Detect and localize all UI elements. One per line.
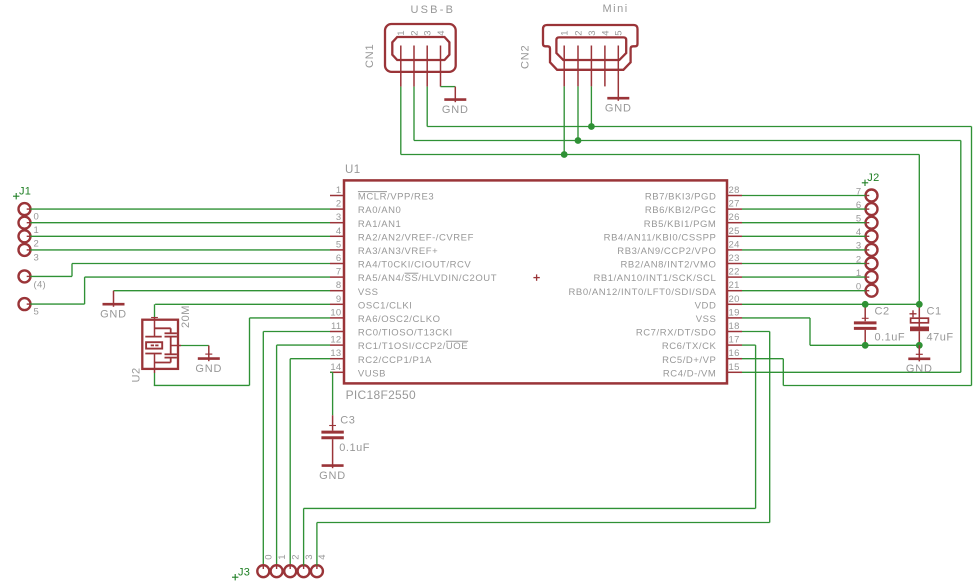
svg-text:3: 3	[587, 30, 598, 36]
wire U1 pin20 VDD to caps	[742, 303, 919, 305]
svg-text:OSC1/CLKI: OSC1/CLKI	[358, 300, 413, 311]
svg-text:22: 22	[729, 267, 740, 278]
J3 pin 0 circle	[262, 565, 264, 569]
U1 pin 6 stub	[330, 263, 344, 265]
svg-text:4: 4	[336, 226, 342, 237]
svg-text:11: 11	[331, 321, 341, 332]
svg-text:GND: GND	[906, 363, 933, 375]
svg-text:0: 0	[264, 554, 275, 560]
svg-text:RB0/AN12/INT0/LFT0/SDI/SDA: RB0/AN12/INT0/LFT0/SDI/SDA	[569, 287, 717, 298]
U1 pin 23 stub	[727, 263, 742, 265]
svg-text:RC6/TX/CK: RC6/TX/CK	[662, 341, 717, 352]
svg-text:RC7/RX/DT/SDO: RC7/RX/DT/SDO	[636, 328, 717, 339]
wire D- to U1 pin15	[742, 371, 961, 373]
U1 pin 11 stub	[330, 331, 344, 333]
svg-text:23: 23	[729, 253, 740, 264]
CN1 pin 4	[440, 46, 442, 87]
svg-text:USB-B: USB-B	[411, 4, 456, 16]
svg-text:5: 5	[614, 30, 625, 36]
J3 pin 2 circle	[289, 565, 291, 569]
svg-text:19: 19	[729, 307, 740, 318]
svg-text:VSS: VSS	[358, 287, 379, 298]
svg-text:RA1/AN1: RA1/AN1	[358, 219, 401, 230]
svg-text:MCLR/VPP/RE3: MCLR/VPP/RE3	[358, 192, 434, 203]
U1 pin 7 stub	[330, 276, 344, 278]
svg-text:CN2: CN2	[520, 45, 532, 69]
wire crystal center pin to ground	[181, 345, 209, 347]
wire VBUS: CN2 pin1 down	[563, 86, 565, 154]
U1 pin 25 stub	[727, 235, 742, 237]
svg-text:7: 7	[336, 267, 342, 278]
svg-text:Mini: Mini	[603, 3, 629, 15]
node junction CN2 pin1 / VBUS	[561, 151, 568, 158]
U1 pin 22 stub	[727, 276, 742, 278]
svg-text:C1: C1	[927, 306, 942, 318]
svg-text:8: 8	[336, 280, 342, 291]
wire U1 pin12 to J3 pin1	[277, 344, 330, 346]
U1 pin 1 stub	[330, 195, 344, 197]
CN2 inner plug outline	[556, 37, 626, 60]
svg-text:RA3/AN3/VREF+: RA3/AN3/VREF+	[358, 246, 438, 257]
CN1 pin 3	[426, 46, 428, 87]
svg-text:0.1uF: 0.1uF	[875, 332, 906, 344]
wire U1 pin17 drop	[755, 345, 757, 508]
svg-text:PIC18F2550: PIC18F2550	[346, 388, 416, 402]
svg-text:4: 4	[436, 30, 447, 36]
CN2 pin 3	[590, 46, 592, 87]
wire U1 pin 24 to J2	[742, 249, 866, 251]
U1 pin 18 stub	[727, 331, 742, 333]
J2 pin 0 circle	[865, 290, 869, 292]
svg-text:GND: GND	[195, 363, 222, 375]
svg-text:5: 5	[34, 307, 40, 318]
J1 pin 5 circle	[27, 303, 31, 305]
wire U1 pin 21 to J2	[742, 290, 866, 292]
wire J3 pin3 riser	[303, 508, 305, 565]
svg-text:9: 9	[336, 294, 342, 305]
wire J1 pin 2 to U1	[30, 235, 330, 237]
wire VBUS: CN1 pin1 down	[400, 87, 402, 155]
svg-text:3: 3	[34, 252, 40, 263]
J2 pin 6 circle	[865, 208, 869, 210]
wire CN1 pin4 to GND	[441, 86, 456, 88]
wire J3 pin4 to U1 pin18 run	[317, 522, 770, 524]
wire J3 pin3 to U1 pin17 run	[304, 507, 756, 509]
wire U1 pin13 to J3 pin2	[290, 358, 330, 360]
svg-text:1: 1	[336, 185, 342, 196]
J3 pin 3 circle	[303, 565, 305, 569]
CN2 pin 1	[563, 46, 565, 87]
svg-text:27: 27	[729, 199, 740, 210]
wire U1 pin 27 to J2	[742, 208, 866, 210]
svg-text:U1: U1	[345, 164, 361, 176]
wire D+: CN2 pin3 down	[590, 86, 592, 126]
capacitor C1 polarized	[910, 304, 930, 345]
svg-text:21: 21	[729, 280, 740, 291]
svg-text:RA6/OSC2/CLKO: RA6/OSC2/CLKO	[358, 314, 441, 325]
wire U1 pin 26 to J2	[742, 222, 866, 224]
svg-text:RC5/D+/VP: RC5/D+/VP	[662, 355, 716, 366]
U1 pin 5 stub	[330, 249, 344, 251]
svg-text:3: 3	[304, 554, 315, 560]
J2 pin 5 circle	[865, 222, 869, 224]
capacitor C3	[321, 415, 343, 461]
U1 pin 2 stub	[330, 208, 344, 210]
U1 pin 12 stub	[330, 344, 344, 346]
svg-text:C2: C2	[875, 306, 890, 318]
svg-text:12: 12	[330, 335, 341, 346]
svg-text:2: 2	[290, 554, 301, 560]
ground GND at CN1	[454, 87, 456, 103]
svg-text:RB6/KBI2/PGC: RB6/KBI2/PGC	[645, 205, 717, 216]
svg-text:VDD: VDD	[695, 300, 717, 311]
wire U1 pin 22 to J2	[742, 276, 866, 278]
U1 pin7 SS overline	[405, 272, 419, 274]
U1 origin cross	[533, 277, 539, 279]
svg-text:2: 2	[573, 30, 584, 36]
svg-text:10: 10	[330, 307, 341, 318]
J1 pin 0 circle	[27, 208, 31, 210]
wire OSC2 (U1 pin10) to crystal bottom	[250, 317, 331, 319]
svg-text:RA5/AN4/SS/HLVDIN/C2OUT: RA5/AN4/SS/HLVDIN/C2OUT	[358, 273, 497, 284]
svg-text:4: 4	[600, 30, 611, 36]
svg-text:VSS: VSS	[696, 314, 717, 325]
node junction C2 top	[862, 301, 869, 308]
U1 pin 4 stub	[330, 235, 344, 237]
U1 pin 15 stub	[727, 371, 742, 373]
wire J1 pin 1 to U1	[30, 222, 330, 224]
J1 pin (4) circle	[27, 275, 31, 277]
wire D+ down right side	[971, 127, 973, 386]
svg-text:RA2/AN2/VREF-/CVREF: RA2/AN2/VREF-/CVREF	[358, 232, 474, 243]
J1 origin cross	[13, 195, 19, 197]
svg-text:RC2/CCP1/P1A: RC2/CCP1/P1A	[358, 355, 432, 366]
svg-text:17: 17	[729, 335, 740, 346]
wire U1 pin 25 to J2	[742, 235, 866, 237]
J3 origin cross	[232, 576, 238, 578]
U1 pin 24 stub	[727, 249, 742, 251]
CN1 pin 2	[413, 46, 415, 87]
svg-text:J2: J2	[867, 172, 879, 184]
svg-text:RB7/BKI3/PGD: RB7/BKI3/PGD	[645, 192, 717, 203]
svg-text:25: 25	[729, 226, 740, 237]
connector CN1 USB-B outer body	[385, 24, 456, 72]
U1 pin 16 stub	[727, 358, 742, 360]
J2 pin 3 circle	[865, 249, 869, 251]
svg-text:15: 15	[729, 362, 740, 373]
wire D-: CN1 pin2 down	[413, 87, 415, 141]
wire J1 pin 0 to U1	[30, 208, 330, 210]
svg-text:RC1/T1OSI/CCP2/UOE: RC1/T1OSI/CCP2/UOE	[358, 341, 468, 352]
crystal U2 body	[142, 317, 181, 373]
J1 pin 3 circle	[27, 249, 31, 251]
svg-text:16: 16	[729, 348, 740, 359]
J3 pin 4 circle	[316, 565, 318, 569]
svg-text:0: 0	[34, 212, 40, 223]
svg-text:14: 14	[330, 362, 341, 373]
wire U1 pin19 VSS jog down	[742, 317, 810, 319]
U1 pin 13 stub	[330, 358, 344, 360]
ground GND at U1 pin8	[113, 291, 115, 307]
CN2 pin 4 (unconnected)	[604, 46, 606, 87]
U1 pin 26 stub	[727, 222, 742, 224]
U1 pin12 UOE overline	[446, 340, 468, 342]
wire D- down right side	[960, 141, 962, 373]
CN2 pin 5 to ground	[617, 46, 619, 101]
CN1 pin 1	[400, 46, 402, 87]
J2 pin 2 circle	[865, 263, 869, 265]
U1 pin1 MCLR overline	[358, 191, 387, 193]
svg-text:RB4/AN11/KBI0/CSSPP: RB4/AN11/KBI0/CSSPP	[604, 232, 717, 243]
svg-text:RA4/T0CKI/CIOUT/RCV: RA4/T0CKI/CIOUT/RCV	[358, 260, 471, 271]
J1 pin 1 circle	[27, 222, 31, 224]
U1 pin 17 stub	[727, 344, 742, 346]
U1 pin 27 stub	[727, 208, 742, 210]
U1 pin 8 stub	[330, 290, 344, 292]
svg-text:U2: U2	[131, 367, 143, 382]
svg-text:RB5/KBI1/PGM: RB5/KBI1/PGM	[644, 219, 717, 230]
svg-text:0.1uF: 0.1uF	[339, 442, 370, 454]
svg-text:26: 26	[729, 212, 740, 223]
U1 pin 21 stub	[727, 290, 742, 292]
wire U1 pin 23 to J2	[742, 263, 866, 265]
wire D+ riser at pin16	[782, 359, 784, 386]
wire VBUS horizontal bus	[401, 154, 920, 156]
wire VBUS down right side to VDD rail	[918, 155, 920, 305]
J2 origin cross	[862, 182, 868, 184]
U1 pin 20 stub	[727, 303, 742, 305]
node junction C2 bottom	[862, 342, 869, 349]
svg-text:13: 13	[330, 348, 341, 359]
svg-text:(4): (4)	[34, 279, 47, 290]
svg-text:1: 1	[34, 225, 40, 236]
svg-text:J1: J1	[19, 186, 31, 198]
U1 pin 28 stub	[727, 195, 742, 197]
svg-text:C3: C3	[340, 415, 355, 427]
svg-text:RB3/AN9/CCP2/VPO: RB3/AN9/CCP2/VPO	[617, 246, 716, 257]
node junction CN2 pin3 / D+	[588, 123, 595, 130]
J1 pin 2 circle	[27, 235, 31, 237]
CN2 pin 2	[577, 46, 579, 87]
U1 pin 10 stub	[330, 317, 344, 319]
wire U1 pin18 drop	[769, 332, 771, 523]
wire U1 pin 28 to J2	[742, 195, 866, 197]
J2 pin 4 circle	[865, 235, 869, 237]
connector CN2 Mini-USB outer body	[543, 25, 638, 70]
wire J1 pin5 jog	[30, 303, 84, 305]
svg-text:RB1/AN10/INT1/SCK/SCL: RB1/AN10/INT1/SCK/SCL	[593, 273, 716, 284]
svg-text:GND: GND	[100, 308, 127, 320]
svg-text:1: 1	[560, 30, 571, 36]
J2 pin 1 circle	[865, 276, 869, 278]
svg-text:GND: GND	[319, 470, 346, 482]
wire D- horizontal bus	[414, 140, 961, 142]
wire U1 pin8 VSS to ground	[114, 290, 331, 292]
U1 pin 19 stub	[727, 317, 742, 319]
J3 pin 1 circle	[276, 565, 278, 569]
svg-text:24: 24	[729, 239, 740, 250]
svg-text:18: 18	[729, 321, 740, 332]
wire VSS bottom rail under caps	[810, 344, 919, 346]
ground GND at crystal	[208, 346, 210, 362]
svg-text:GND: GND	[442, 104, 469, 116]
wire D+ bottom run to U1 pin16	[783, 385, 971, 387]
svg-text:VUSB: VUSB	[358, 368, 386, 379]
svg-text:5: 5	[336, 239, 342, 250]
svg-text:28: 28	[729, 185, 740, 196]
wire J1 pin 3 to U1	[30, 249, 330, 251]
svg-text:2: 2	[409, 30, 420, 36]
wire U1 pin16 stub run	[742, 358, 783, 360]
svg-text:J3: J3	[238, 567, 250, 579]
svg-text:20: 20	[729, 294, 740, 305]
svg-text:CN1: CN1	[364, 44, 376, 68]
svg-text:1: 1	[396, 30, 407, 36]
wire J3 pin4 riser	[316, 523, 318, 566]
wire D+ horizontal bus	[427, 126, 971, 128]
svg-text:RA0/AN0: RA0/AN0	[358, 205, 401, 216]
wire U1 pin11 to J3 pin0	[263, 331, 330, 333]
ground GND at C3	[332, 461, 334, 468]
J2 pin 7 circle	[865, 195, 869, 197]
svg-text:20M: 20M	[180, 305, 192, 328]
svg-text:RB2/AN8/INT2/VMO: RB2/AN8/INT2/VMO	[620, 260, 716, 271]
svg-text:2: 2	[34, 239, 40, 250]
wire U1 pin14 VUSB down to C3	[330, 371, 333, 373]
node junction C1 bottom	[916, 342, 923, 349]
U1 pin 9 stub	[330, 303, 344, 305]
op-amp/IC U1 PIC18F2550 body	[344, 180, 727, 383]
svg-text:1: 1	[277, 554, 288, 560]
svg-text:4: 4	[317, 554, 328, 560]
svg-text:RC0/TIOSO/T13CKI: RC0/TIOSO/T13CKI	[358, 328, 453, 339]
wire D-: CN2 pin2 down	[577, 86, 579, 140]
svg-text:47uF: 47uF	[927, 332, 954, 344]
wire D+: CN1 pin3 down	[426, 87, 428, 127]
ground GND at CN2	[607, 97, 629, 100]
node junction C1 top	[916, 301, 923, 308]
U1 pin 3 stub	[330, 222, 344, 224]
svg-text:RC4/D-/VM: RC4/D-/VM	[663, 368, 717, 379]
wire OSC1 (U1 pin9) to crystal	[155, 303, 330, 305]
ground GND at C1	[918, 345, 920, 361]
wire J1 pin4 jog	[30, 275, 72, 277]
svg-text:GND: GND	[605, 102, 632, 114]
svg-text:6: 6	[336, 253, 342, 264]
CN1 inner plug outline	[392, 37, 449, 60]
svg-text:2: 2	[336, 199, 342, 210]
svg-text:3: 3	[336, 212, 342, 223]
svg-text:3: 3	[423, 30, 434, 36]
node junction CN2 pin2 / D-	[575, 137, 582, 144]
U1 pin 14 stub	[330, 371, 344, 373]
capacitor C2	[854, 304, 877, 345]
